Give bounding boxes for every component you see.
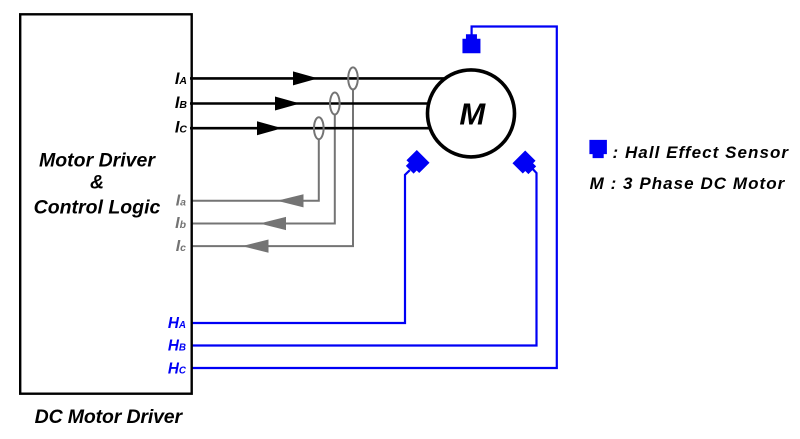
arrow IA (points right) [293, 71, 318, 85]
wire Ic return (from sensor loop on IA line) [192, 89, 353, 246]
svg-text:M : 3 Phase DC Motor: M : 3 Phase DC Motor [590, 174, 786, 193]
svg-text:&: & [90, 172, 104, 194]
motor M (circle) [428, 70, 515, 157]
label: Motor Driver & Control Logic [34, 150, 161, 219]
driver box [20, 14, 192, 393]
arrow Ia (points left) [277, 194, 304, 207]
wire Ib return (from sensor loop on IB line) [192, 114, 335, 224]
svg-text:Control Logic: Control Logic [34, 197, 161, 219]
current sense loop C (ellipse on IC wire) [314, 117, 324, 139]
svg-text:Motor Driver: Motor Driver [39, 150, 156, 172]
current sense loop A (ellipse on IA wire) [348, 67, 358, 89]
wire IA [190, 77, 452, 80]
hall effect sensor top (square with tab, feeds HC) [462, 34, 480, 53]
wire Ia return (from sensor loop on IC line) [192, 139, 319, 201]
arrow Ic (points left) [242, 240, 269, 253]
svg-text:DC Motor Driver: DC Motor Driver [35, 406, 184, 428]
wire HA (from left hall sensor to box) [192, 170, 410, 323]
hall effect sensor right (rotated square with tab, feeds HB) [512, 150, 538, 176]
arrow IB (points right) [275, 97, 300, 111]
svg-text:: Hall Effect Sensor: : Hall Effect Sensor [613, 143, 790, 162]
wire HC (loop from top hall sensor to box) [192, 27, 557, 369]
wire IC [190, 127, 436, 130]
arrow Ib (points left) [260, 217, 287, 230]
current sense loop B (ellipse on IB wire) [330, 93, 340, 115]
svg-text:M: M [459, 96, 486, 131]
wire HB (from right hall sensor to box) [192, 169, 537, 346]
arrow IC (points right) [257, 121, 282, 135]
hall effect sensor left (rotated square with tab, feeds HA) [403, 150, 429, 176]
legend: hall effect sensor icon (square with tab down) [589, 140, 607, 158]
wire IB [190, 102, 436, 105]
